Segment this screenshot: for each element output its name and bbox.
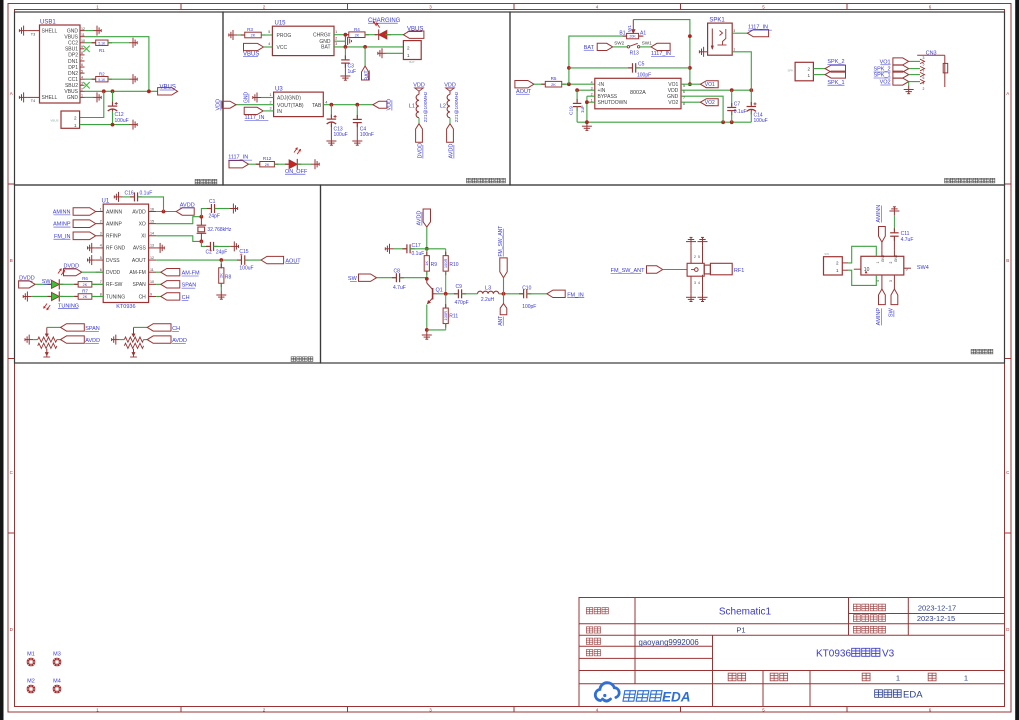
svg-text:DVDD: DVDD xyxy=(418,143,424,159)
svg-text:0.1uF: 0.1uF xyxy=(140,191,153,197)
svg-text:1: 1 xyxy=(836,268,839,273)
svg-text:W1: W1 xyxy=(627,25,632,32)
svg-text:1: 1 xyxy=(100,207,102,211)
svg-text:M4: M4 xyxy=(53,679,61,685)
svg-text:TUNING: TUNING xyxy=(58,303,79,309)
svg-text:5.1K: 5.1K xyxy=(98,78,106,82)
svg-text:AOUT: AOUT xyxy=(516,89,532,95)
svg-text:AVDD: AVDD xyxy=(449,144,455,159)
svg-text:VO1: VO1 xyxy=(705,82,715,88)
svg-text:100uF: 100uF xyxy=(115,118,129,124)
svg-text:T3: T3 xyxy=(31,32,35,36)
svg-text:U15: U15 xyxy=(275,21,287,27)
svg-text:SW: SW xyxy=(42,279,52,285)
svg-text:AMINN: AMINN xyxy=(106,209,123,215)
svg-text:SW: SW xyxy=(348,276,358,282)
svg-text:VCC: VCC xyxy=(277,45,288,51)
svg-text:A: A xyxy=(1006,91,1009,96)
svg-text:2023-12-15: 2023-12-15 xyxy=(917,614,955,623)
svg-text:AVDD: AVDD xyxy=(132,209,146,215)
svg-text:13: 13 xyxy=(150,244,154,248)
svg-text:SW: SW xyxy=(824,252,829,256)
svg-text:2K: 2K xyxy=(219,273,224,278)
svg-text:C1: C1 xyxy=(209,199,216,205)
svg-text:FM_IN: FM_IN xyxy=(567,292,584,298)
svg-text:24pF: 24pF xyxy=(216,250,227,256)
svg-text:R5: R5 xyxy=(551,76,557,81)
svg-text:SPK: SPK xyxy=(787,69,793,73)
svg-text:AMINP: AMINP xyxy=(53,222,71,228)
svg-text:7: 7 xyxy=(923,69,925,73)
svg-text:11: 11 xyxy=(150,268,154,272)
svg-text:8: 8 xyxy=(81,51,83,55)
svg-text:2: 2 xyxy=(335,37,337,41)
svg-text:VOUT(TAB): VOUT(TAB) xyxy=(277,103,304,109)
svg-text:ANT: ANT xyxy=(498,316,504,326)
svg-text:ON_OFF: ON_OFF xyxy=(285,169,308,175)
svg-text:BAT: BAT xyxy=(409,60,415,64)
svg-text:C17: C17 xyxy=(412,243,421,249)
svg-text:C10: C10 xyxy=(522,286,531,292)
svg-text:BAT: BAT xyxy=(364,70,370,81)
svg-text:VDD: VDD xyxy=(216,99,222,111)
svg-text:4.7uF: 4.7uF xyxy=(901,237,914,243)
svg-text:14: 14 xyxy=(150,232,154,236)
svg-text:2: 2 xyxy=(81,88,83,92)
svg-text:7: 7 xyxy=(100,280,102,284)
svg-text:AOUT: AOUT xyxy=(285,258,301,264)
svg-text:2.2uH: 2.2uH xyxy=(481,297,495,303)
svg-text:3: 3 xyxy=(694,281,696,285)
svg-text:DVDD: DVDD xyxy=(19,276,35,282)
svg-text:TAB: TAB xyxy=(312,103,322,109)
svg-text:100uF: 100uF xyxy=(754,118,768,124)
svg-text:VBUS: VBUS xyxy=(50,119,58,123)
svg-text:4: 4 xyxy=(325,100,327,104)
svg-text:AMINN: AMINN xyxy=(876,205,882,223)
svg-text:L2: L2 xyxy=(440,104,446,110)
svg-text:100nF: 100nF xyxy=(360,132,374,138)
svg-text:SPK1: SPK1 xyxy=(709,17,725,23)
svg-text:gaoyang9992006: gaoyang9992006 xyxy=(639,638,699,647)
svg-text:3: 3 xyxy=(270,107,272,111)
svg-text:M3: M3 xyxy=(53,652,61,658)
svg-text:AVDD: AVDD xyxy=(417,211,423,226)
svg-text:3: 3 xyxy=(335,42,337,46)
svg-text:CHRG#: CHRG# xyxy=(313,32,331,38)
svg-text:15: 15 xyxy=(150,219,154,223)
svg-text:DVDD: DVDD xyxy=(106,270,121,276)
svg-text:GND: GND xyxy=(894,254,898,262)
svg-text:BAT: BAT xyxy=(584,45,595,51)
svg-text:EDA: EDA xyxy=(662,690,691,705)
svg-text:CH: CH xyxy=(182,295,190,301)
svg-text:3: 3 xyxy=(733,29,735,33)
svg-text:6: 6 xyxy=(923,76,925,80)
svg-text:12: 12 xyxy=(81,27,85,31)
svg-text:4: 4 xyxy=(591,80,593,84)
svg-text:9: 9 xyxy=(150,292,152,296)
svg-text:4: 4 xyxy=(698,281,700,285)
svg-text:6: 6 xyxy=(100,268,102,272)
svg-text:2: 2 xyxy=(923,87,925,91)
svg-text:2K: 2K xyxy=(83,295,88,299)
svg-text:32.768kHz: 32.768kHz xyxy=(207,227,231,233)
svg-text:VO2: VO2 xyxy=(880,80,891,86)
svg-text:U1: U1 xyxy=(102,199,110,205)
svg-text:VO1: VO1 xyxy=(880,59,891,65)
svg-text:XO: XO xyxy=(139,221,146,227)
svg-text:1117_IN: 1117_IN xyxy=(748,25,768,31)
svg-text:5: 5 xyxy=(923,63,925,67)
svg-text:470pF: 470pF xyxy=(455,300,469,306)
svg-text:IN: IN xyxy=(277,109,282,115)
svg-text:R1: R1 xyxy=(99,48,105,53)
svg-text:KT0936: KT0936 xyxy=(816,649,851,660)
svg-text:SW2: SW2 xyxy=(614,40,624,45)
svg-text:2K: 2K xyxy=(355,33,360,37)
svg-text:GND: GND xyxy=(244,92,250,104)
svg-text:VO2: VO2 xyxy=(668,100,678,106)
svg-text:4: 4 xyxy=(100,244,102,248)
svg-text:R11: R11 xyxy=(449,314,458,320)
svg-text:B: B xyxy=(1006,258,1009,263)
svg-text:5: 5 xyxy=(698,255,700,259)
svg-text:A: A xyxy=(10,91,13,96)
svg-text:A1: A1 xyxy=(640,30,646,36)
svg-text:V3: V3 xyxy=(882,649,895,660)
svg-text:0.1uF: 0.1uF xyxy=(412,251,425,257)
svg-text:R13: R13 xyxy=(630,51,639,57)
svg-text:C19: C19 xyxy=(569,106,575,115)
svg-text:2: 2 xyxy=(100,219,102,223)
svg-text:1: 1 xyxy=(733,48,735,52)
svg-text:SPK_1: SPK_1 xyxy=(873,73,890,79)
svg-text:4: 4 xyxy=(268,42,270,46)
svg-text:2: 2 xyxy=(836,261,839,266)
svg-text:AM-FM: AM-FM xyxy=(182,271,200,277)
svg-text:AVDD: AVDD xyxy=(85,338,100,344)
svg-text:5: 5 xyxy=(81,69,83,73)
svg-text:R12: R12 xyxy=(263,156,272,161)
svg-text:DVSS: DVSS xyxy=(106,258,120,264)
svg-text:12: 12 xyxy=(150,256,154,260)
svg-text:1117_IN: 1117_IN xyxy=(651,51,671,57)
svg-text:100R: 100R xyxy=(443,311,448,321)
svg-text:AVDD: AVDD xyxy=(172,338,187,344)
svg-text:AVDD: AVDD xyxy=(180,203,195,209)
svg-text:3: 3 xyxy=(81,81,83,85)
svg-text:BAT: BAT xyxy=(321,45,330,51)
svg-text:1: 1 xyxy=(81,94,83,98)
svg-text:VO2: VO2 xyxy=(705,100,715,106)
svg-text:3: 3 xyxy=(889,280,893,282)
svg-text:SPK_1: SPK_1 xyxy=(827,80,844,86)
svg-text:TUNING: TUNING xyxy=(106,294,125,300)
svg-text:M1: M1 xyxy=(27,652,35,658)
svg-text:AMINP: AMINP xyxy=(876,308,882,326)
svg-text:P1: P1 xyxy=(736,626,745,635)
svg-text:SHELL: SHELL xyxy=(42,95,58,101)
svg-text:2: 2 xyxy=(270,100,272,104)
svg-text:SPK_2: SPK_2 xyxy=(827,59,844,65)
svg-text:KT0936: KT0936 xyxy=(116,304,135,310)
svg-text:R10: R10 xyxy=(449,262,458,268)
svg-text:C5: C5 xyxy=(638,62,645,68)
svg-text:20K: 20K xyxy=(629,35,636,39)
svg-text:2: 2 xyxy=(694,255,696,259)
svg-text:2023-12-17: 2023-12-17 xyxy=(918,603,956,612)
svg-text:0.1uF: 0.1uF xyxy=(734,109,747,115)
svg-text:SHELL: SHELL xyxy=(42,28,58,34)
svg-text:SPAN: SPAN xyxy=(85,326,100,332)
svg-text:T4: T4 xyxy=(31,99,35,103)
svg-text:RFINP: RFINP xyxy=(106,234,122,240)
svg-text:AVSS: AVSS xyxy=(133,246,147,252)
svg-text:R9: R9 xyxy=(431,262,438,268)
svg-text:100R: 100R xyxy=(443,259,448,269)
svg-text:R8: R8 xyxy=(225,274,232,280)
svg-text:Schematic1: Schematic1 xyxy=(719,607,772,618)
svg-text:FM_IN: FM_IN xyxy=(54,234,71,240)
svg-text:RF1: RF1 xyxy=(734,268,744,274)
svg-text:AOUT: AOUT xyxy=(132,258,146,264)
svg-text:SHUTDOWN: SHUTDOWN xyxy=(598,100,628,106)
svg-text:U3: U3 xyxy=(275,86,283,92)
svg-text:R4: R4 xyxy=(354,27,360,32)
svg-text:1117_IN: 1117_IN xyxy=(245,115,265,121)
svg-text:1: 1 xyxy=(74,123,77,128)
svg-text:100pF: 100pF xyxy=(637,72,651,78)
svg-text:221@100MHz: 221@100MHz xyxy=(454,91,460,122)
svg-text:RF-SW: RF-SW xyxy=(106,282,123,288)
svg-text:10: 10 xyxy=(150,280,154,284)
svg-text:CH: CH xyxy=(139,294,147,300)
svg-text:7: 7 xyxy=(81,57,83,61)
svg-text:100uF: 100uF xyxy=(239,266,253,272)
svg-text:GND: GND xyxy=(67,95,79,101)
svg-text:PROG: PROG xyxy=(277,33,292,39)
svg-text:1: 1 xyxy=(807,73,810,78)
svg-text:L3: L3 xyxy=(485,286,491,292)
svg-text:5: 5 xyxy=(100,256,102,260)
svg-text:4: 4 xyxy=(923,82,925,86)
svg-text:2K: 2K xyxy=(265,163,270,167)
svg-text:1: 1 xyxy=(270,93,272,97)
svg-text:AMINP: AMINP xyxy=(106,221,123,227)
svg-text:10: 10 xyxy=(81,39,85,43)
svg-text:16: 16 xyxy=(150,207,154,211)
svg-text:221@100MHz: 221@100MHz xyxy=(423,91,429,122)
svg-text:8002A: 8002A xyxy=(630,90,646,96)
svg-text:Q1: Q1 xyxy=(436,287,443,293)
svg-text:2: 2 xyxy=(889,262,893,264)
svg-text:C15: C15 xyxy=(239,249,248,255)
svg-text:5.1K: 5.1K xyxy=(98,41,106,45)
svg-text:2: 2 xyxy=(807,67,810,72)
svg-text:C8: C8 xyxy=(394,269,401,275)
svg-text:R6: R6 xyxy=(82,276,88,281)
svg-text:1uF: 1uF xyxy=(348,69,357,75)
svg-text:24pF: 24pF xyxy=(209,214,220,220)
svg-text:C7: C7 xyxy=(734,101,741,107)
svg-text:AM-FM: AM-FM xyxy=(129,270,145,276)
svg-text:M2: M2 xyxy=(27,679,35,685)
svg-text:SPAN: SPAN xyxy=(182,283,197,289)
svg-text:8: 8 xyxy=(100,292,102,296)
svg-text:R7: R7 xyxy=(82,288,88,293)
svg-text:CH: CH xyxy=(172,326,180,332)
svg-text:3: 3 xyxy=(100,232,102,236)
svg-text:4.7uF: 4.7uF xyxy=(393,285,406,291)
svg-text:R3: R3 xyxy=(247,27,253,32)
svg-text:1117_IN: 1117_IN xyxy=(228,155,248,161)
svg-text:100uF: 100uF xyxy=(334,132,348,138)
svg-text:C9: C9 xyxy=(456,284,463,290)
svg-text:2K: 2K xyxy=(551,83,556,87)
svg-text:100pF: 100pF xyxy=(522,304,536,310)
svg-text:C16: C16 xyxy=(125,191,134,197)
svg-text:VDD: VDD xyxy=(387,99,393,111)
svg-text:VBUS: VBUS xyxy=(407,26,423,32)
svg-text:R2: R2 xyxy=(99,71,105,76)
svg-text:SW: SW xyxy=(889,307,895,317)
svg-text:SW1: SW1 xyxy=(642,40,652,45)
svg-text:9: 9 xyxy=(81,45,83,49)
svg-text:1K: 1K xyxy=(424,261,429,266)
svg-text:EDA: EDA xyxy=(903,690,923,701)
svg-text:C2: C2 xyxy=(206,250,213,256)
svg-text:DVDD: DVDD xyxy=(64,264,80,270)
svg-text:FM_SW_ANT: FM_SW_ANT xyxy=(611,268,646,274)
svg-text:1uF: 1uF xyxy=(580,105,585,113)
svg-text:RF GND: RF GND xyxy=(106,246,126,252)
svg-text:6: 6 xyxy=(81,63,83,67)
svg-text:11: 11 xyxy=(81,33,85,37)
svg-text:2K: 2K xyxy=(83,283,88,287)
svg-text:2K: 2K xyxy=(251,34,256,38)
svg-text:1: 1 xyxy=(896,674,900,683)
svg-text:L1: L1 xyxy=(409,104,415,110)
svg-text:ADJ(GND): ADJ(GND) xyxy=(277,96,301,102)
svg-text:1: 1 xyxy=(407,53,410,58)
svg-text:VBUS: VBUS xyxy=(160,85,176,91)
svg-text:B1: B1 xyxy=(619,30,625,36)
svg-text:AMINN: AMINN xyxy=(53,210,71,216)
svg-text:2: 2 xyxy=(407,45,410,50)
svg-text:GND: GND xyxy=(881,254,885,262)
svg-text:B: B xyxy=(10,258,13,263)
svg-text:CHARGING: CHARGING xyxy=(368,18,401,24)
svg-text:4: 4 xyxy=(81,75,83,79)
svg-text:SPAN: SPAN xyxy=(133,282,147,288)
svg-text:XI: XI xyxy=(141,234,146,240)
svg-text:1: 1 xyxy=(876,262,880,264)
svg-text:VBUS: VBUS xyxy=(243,51,259,57)
svg-text:5: 5 xyxy=(268,30,270,34)
svg-text:FM_SW_ANT: FM_SW_ANT xyxy=(498,226,504,257)
svg-text:1: 1 xyxy=(335,30,337,34)
svg-text:2: 2 xyxy=(74,116,77,121)
svg-text:3: 3 xyxy=(923,56,925,60)
svg-text:SW4: SW4 xyxy=(917,265,929,271)
svg-text:1: 1 xyxy=(964,674,968,683)
